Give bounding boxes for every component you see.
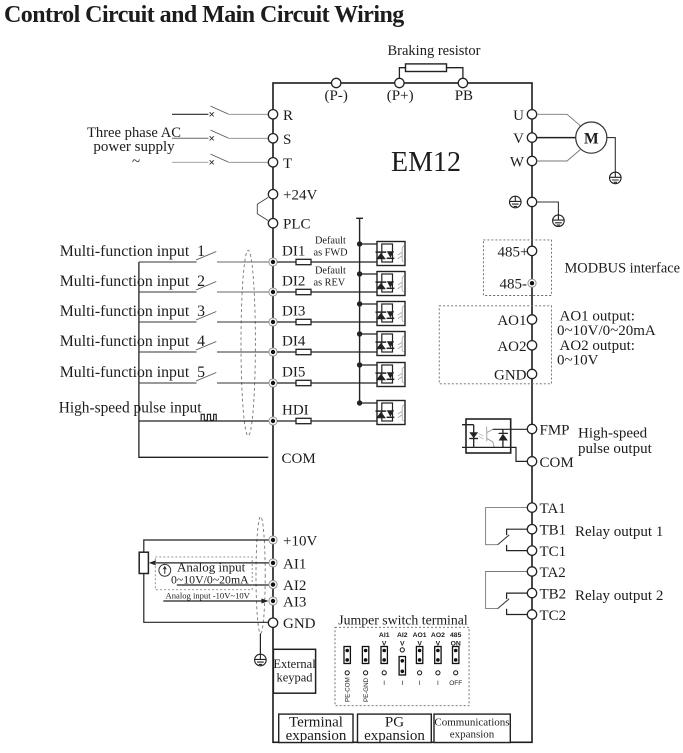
- dotted box: analog output terminals: [439, 306, 551, 384]
- svg-text:V: V: [513, 131, 524, 147]
- svg-text:I: I: [419, 680, 421, 687]
- svg-text:485: 485: [450, 632, 462, 639]
- svg-text:0~10V/0~20mA: 0~10V/0~20mA: [171, 573, 249, 587]
- terminal (P-): [325, 78, 348, 104]
- svg-text:AI1: AI1: [379, 632, 390, 639]
- svg-text:pulse output: pulse output: [578, 441, 653, 457]
- svg-text:PE-GND: PE-GND: [363, 677, 370, 702]
- wire: R phase input: [172, 112, 214, 116]
- terminal 485+: [498, 244, 537, 260]
- switch blade DI2: [196, 282, 216, 291]
- svg-text:Multi-function input 4: Multi-function input 4: [60, 333, 205, 350]
- svg-text:AO1: AO1: [497, 313, 526, 329]
- jumper column AI2: [397, 632, 408, 687]
- svg-text:HDI: HDI: [282, 402, 309, 418]
- svg-text:expansion: expansion: [286, 728, 347, 744]
- svg-text:PE-COM: PE-COM: [345, 677, 352, 702]
- svg-text:Relay output 1: Relay output 1: [575, 524, 663, 540]
- svg-text:S: S: [283, 132, 291, 148]
- terminal U: [513, 108, 537, 124]
- svg-text:~: ~: [132, 154, 140, 170]
- svg-text:GND: GND: [494, 368, 527, 384]
- wire AI3 with arrow into terminal: [163, 599, 268, 604]
- wire blade to terminal T: [228, 161, 268, 163]
- resistor on DI4 line: [296, 349, 311, 354]
- current/voltage source symbol: [159, 564, 171, 576]
- svg-text:M: M: [584, 130, 599, 147]
- svg-text:TC2: TC2: [540, 608, 567, 624]
- terminal TC1: [527, 544, 566, 560]
- terminal AI1: [269, 556, 306, 572]
- wire AI1 with wiper arrow: [149, 560, 269, 565]
- wire: S phase input: [172, 136, 214, 140]
- junction node on opto bus (DI2): [357, 271, 362, 276]
- svg-text:PB: PB: [455, 88, 473, 104]
- terminal AO1: [497, 313, 536, 329]
- optocoupler DI1: [376, 242, 406, 266]
- wire: input row DI4 from bus: [139, 351, 197, 353]
- wire: T phase input: [172, 160, 214, 164]
- terminal DI2: [269, 273, 305, 296]
- jumper column PE-COM: [344, 647, 352, 703]
- switch blade relay 1: [498, 535, 510, 545]
- svg-text:TA1: TA1: [540, 501, 566, 517]
- svg-text:OFF: OFF: [449, 680, 462, 687]
- switch blade DI3: [196, 312, 216, 321]
- svg-text:power supply: power supply: [93, 139, 175, 155]
- wire TC1 contact: [507, 545, 528, 551]
- svg-text:+24V: +24V: [283, 188, 317, 204]
- svg-text:(P-): (P-): [325, 88, 348, 104]
- terminal +10V: [269, 534, 318, 550]
- box PG expansion: [358, 714, 432, 744]
- wire PB to braking resistor: [447, 68, 463, 79]
- terminal (P+): [387, 78, 414, 104]
- wire: DI4 terminal to optocoupler: [277, 351, 377, 353]
- optocoupler HDI: [376, 401, 406, 425]
- terminal TA1: [527, 501, 565, 517]
- junction node on opto bus (DI1): [357, 241, 362, 246]
- wire motor to ground: [607, 138, 615, 172]
- svg-text:U: U: [513, 108, 524, 124]
- optocoupler FMP output: [462, 419, 527, 453]
- terminal FMP: [527, 423, 569, 439]
- terminal S: [268, 132, 291, 148]
- svg-text:I: I: [383, 680, 385, 687]
- wire: input row DI2 from bus: [139, 291, 197, 293]
- wire shield to ground: [259, 634, 261, 654]
- switch blade relay 2: [498, 599, 510, 609]
- svg-text:485+: 485+: [498, 244, 529, 260]
- svg-text:PLC: PLC: [283, 217, 311, 233]
- terminal PLC: [268, 217, 310, 233]
- svg-text:TB2: TB2: [540, 587, 567, 603]
- dotted box: jumper switch terminal: [335, 627, 469, 705]
- svg-text:Relay output 2: Relay output 2: [575, 588, 663, 604]
- jumper column AO1: [413, 632, 427, 687]
- svg-text:Jumper switch terminal: Jumper switch terminal: [338, 613, 468, 628]
- svg-text:High-speed: High-speed: [578, 426, 648, 442]
- box Terminal expansion: [279, 714, 353, 744]
- label Default as REV: [314, 266, 347, 289]
- svg-text:485-: 485-: [500, 277, 528, 293]
- wire FMP box to COM: [511, 447, 528, 461]
- wire V to motor: [537, 137, 576, 139]
- svg-text:Communications: Communications: [434, 717, 509, 729]
- wire AI2: [177, 584, 269, 586]
- terminal R: [268, 108, 293, 124]
- terminal DI1: [269, 243, 305, 266]
- wire: optocoupler supply bus: [356, 218, 363, 403]
- wire: DI2 terminal to optocoupler: [277, 291, 377, 293]
- switch blade DI4: [196, 342, 216, 351]
- ground (PE terminal mark): [510, 196, 522, 208]
- wire: opto bus to optocoupler DI5: [360, 364, 382, 366]
- svg-text:R: R: [283, 108, 293, 124]
- terminal COM (output side): [527, 455, 573, 471]
- cable shield ellipse (digital inputs): [241, 250, 255, 436]
- external keypad box: [273, 649, 316, 693]
- terminal W: [510, 155, 537, 171]
- switch blade DI5: [196, 373, 216, 382]
- wire: HDI terminal to optocoupler: [277, 420, 377, 422]
- wire: switch to terminal DI5: [217, 382, 269, 384]
- svg-text:keypad: keypad: [276, 671, 313, 685]
- jumper column AO2: [431, 632, 445, 687]
- jumper column 485: [449, 632, 462, 687]
- svg-text:0~10V/0~20mA: 0~10V/0~20mA: [557, 323, 656, 339]
- resistor on HDI line: [296, 418, 311, 423]
- ground (shield): [255, 654, 267, 666]
- wire: input row DI3 from bus: [139, 321, 197, 323]
- wire: switch to terminal DI3: [217, 321, 269, 323]
- terminal DI4: [269, 333, 306, 356]
- svg-text:TA2: TA2: [540, 565, 566, 581]
- svg-text:DI1: DI1: [282, 243, 305, 259]
- svg-text:DI4: DI4: [282, 333, 306, 349]
- svg-text:Analog input -10V~10V: Analog input -10V~10V: [166, 591, 251, 601]
- switch blade DI1: [196, 252, 216, 261]
- wire: DI1 terminal to optocoupler: [277, 261, 377, 263]
- svg-text:COM: COM: [282, 451, 316, 467]
- wire TB1 contact: [507, 529, 528, 535]
- svg-text:AO2: AO2: [431, 632, 445, 639]
- svg-text:AI3: AI3: [283, 595, 306, 611]
- wire blade to terminal R: [228, 113, 268, 115]
- dotted box: MODBUS terminals: [483, 240, 551, 296]
- label Analog input 0~10V/0~20mA: [171, 560, 249, 587]
- jumper column AI1: [379, 632, 390, 687]
- cable shield ellipse (analog inputs): [256, 517, 265, 634]
- svg-text:Multi-function input 2: Multi-function input 2: [60, 273, 205, 290]
- motor M: [576, 122, 607, 153]
- svg-text:0~10V: 0~10V: [557, 353, 599, 369]
- terminal +24V: [268, 188, 317, 204]
- svg-text:Default: Default: [315, 236, 346, 247]
- optocoupler DI5: [376, 363, 406, 387]
- svg-text:Multi-function input 3: Multi-function input 3: [60, 303, 205, 320]
- svg-text:DI2: DI2: [282, 273, 305, 289]
- wire relay 1 common from TA1: [486, 508, 528, 545]
- terminal T: [268, 156, 292, 172]
- wire PE terminal to ground: [537, 202, 559, 215]
- svg-text:FMP: FMP: [540, 423, 570, 439]
- svg-text:Multi-function input 5: Multi-function input 5: [60, 364, 205, 381]
- ground (motor): [610, 172, 622, 184]
- svg-text:DI5: DI5: [282, 364, 305, 380]
- wire: input row DI1 from bus: [139, 261, 197, 263]
- svg-text:Multi-function input 1: Multi-function input 1: [60, 243, 205, 260]
- svg-text:External: External: [273, 657, 316, 671]
- optocoupler DI2: [376, 272, 406, 296]
- svg-text:TC1: TC1: [540, 544, 567, 560]
- wire potentiometer to GND: [144, 574, 268, 623]
- resistor: braking resistor: [406, 64, 447, 72]
- wire relay 2 common from TA2: [486, 572, 528, 609]
- wire: opto bus to optocoupler DI4: [360, 333, 382, 335]
- dotted box: analog input annotation: [155, 557, 252, 590]
- svg-text:expansion: expansion: [364, 728, 425, 744]
- wire: high-speed pulse input row to HDI: [139, 420, 269, 422]
- svg-text:High-speed pulse input: High-speed pulse input: [59, 399, 202, 416]
- svg-text:DI3: DI3: [282, 303, 305, 319]
- svg-text:I: I: [401, 680, 403, 687]
- svg-text:AO1: AO1: [413, 632, 427, 639]
- label Three phase AC power supply: [87, 125, 181, 170]
- wire: switch to terminal DI2: [217, 291, 269, 293]
- svg-text:as FWD: as FWD: [314, 248, 349, 259]
- terminal DI5: [269, 364, 305, 387]
- junction node on opto bus (DI4): [357, 331, 362, 336]
- box Communications expansion: [434, 714, 510, 742]
- optocoupler DI4: [376, 332, 406, 356]
- resistor on DI2 line: [296, 289, 311, 294]
- resistor on DI1 line: [296, 259, 311, 264]
- switch blade R: [211, 106, 229, 114]
- svg-text:AI2: AI2: [397, 632, 408, 639]
- svg-text:AI2: AI2: [283, 578, 306, 594]
- ground (drive PE): [553, 215, 565, 227]
- resistor on DI3 line: [296, 319, 311, 324]
- switch blade S: [211, 130, 229, 138]
- wire: opto bus to optocoupler DI2: [360, 273, 382, 275]
- svg-text:Control Circuit and Main Circu: Control Circuit and Main Circuit Wiring: [4, 2, 404, 28]
- wire TB2 contact: [507, 593, 528, 599]
- switch blade T: [211, 154, 229, 162]
- svg-text:as REV: as REV: [314, 278, 346, 289]
- terminal GND (analog output): [494, 368, 537, 384]
- terminal TC2: [527, 608, 566, 624]
- svg-text:MODBUS interface: MODBUS interface: [565, 261, 681, 277]
- svg-text:I: I: [437, 680, 439, 687]
- svg-text:COM: COM: [540, 455, 574, 471]
- svg-text:W: W: [510, 155, 525, 171]
- svg-text:(P+): (P+): [387, 88, 414, 104]
- wire U to motor: [537, 114, 581, 125]
- svg-text:Braking resistor: Braking resistor: [387, 43, 480, 59]
- svg-text:+10V: +10V: [283, 534, 317, 550]
- terminal GND: [268, 616, 315, 632]
- junction node on opto bus (HDI): [357, 400, 362, 405]
- svg-text:EM12: EM12: [391, 147, 461, 178]
- svg-text:Default: Default: [315, 266, 346, 277]
- terminal PB: [455, 78, 473, 104]
- terminal AI2: [269, 578, 306, 594]
- terminal HDI: [269, 402, 309, 425]
- terminal 485-: [500, 277, 537, 293]
- terminal PE: [527, 197, 536, 206]
- terminal V: [513, 131, 537, 147]
- junction node on opto bus (DI5): [357, 362, 362, 367]
- EM12 drive enclosure: [273, 83, 532, 742]
- optocoupler DI3: [376, 302, 406, 326]
- terminal TB1: [527, 523, 566, 539]
- svg-text:AI1: AI1: [283, 556, 306, 572]
- wire (P+) to braking resistor: [399, 68, 405, 79]
- potentiometer: [139, 552, 148, 573]
- terminal TA2: [527, 565, 565, 581]
- wire: switch to terminal DI4: [217, 351, 269, 353]
- wire: opto bus to optocoupler DI3: [360, 303, 382, 305]
- svg-text:AO2: AO2: [497, 339, 526, 355]
- wire: input row DI5 from bus: [139, 382, 197, 384]
- pulse waveform symbol on HDI input: [201, 414, 216, 420]
- wire W to motor: [537, 150, 581, 161]
- wire: opto bus to optocoupler HDI: [360, 402, 382, 404]
- svg-text:TB1: TB1: [540, 523, 567, 539]
- terminal AI3: [269, 595, 306, 611]
- wire jumper +24V to PLC: [257, 198, 268, 221]
- wire: switch to terminal DI1: [217, 261, 269, 263]
- terminal AO2: [497, 339, 536, 355]
- jumper column PE-GND: [362, 647, 370, 703]
- wire +10V to potentiometer: [144, 540, 269, 552]
- resistor on DI5 line: [296, 380, 311, 385]
- terminal DI3: [269, 303, 305, 326]
- svg-text:V: V: [400, 640, 405, 647]
- label AO1 output: [557, 309, 656, 369]
- wire: common bus of digital inputs to COM: [139, 262, 268, 457]
- wire TC2 contact: [507, 609, 528, 615]
- terminal TB2: [527, 587, 566, 603]
- svg-text:expansion: expansion: [450, 729, 495, 741]
- junction node on opto bus (DI3): [357, 301, 362, 306]
- wire blade to terminal S: [228, 137, 268, 139]
- wire: DI3 terminal to optocoupler: [277, 321, 377, 323]
- svg-text:T: T: [283, 156, 292, 172]
- wire: DI5 terminal to optocoupler: [277, 382, 377, 384]
- wire: opto bus to optocoupler DI1: [360, 243, 382, 245]
- label High-speed pulse output: [578, 426, 653, 458]
- label Default as FWD: [314, 236, 349, 259]
- svg-text:GND: GND: [283, 616, 316, 632]
